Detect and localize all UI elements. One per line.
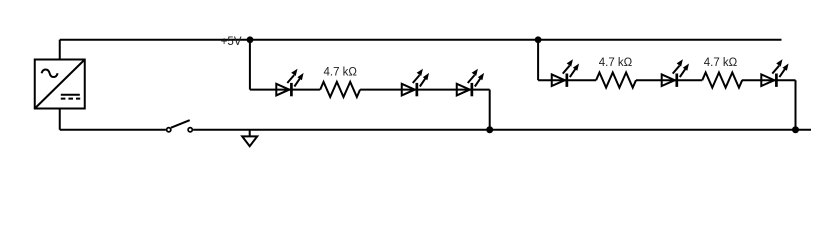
power supply U1 box [35,60,85,109]
node branch2 bottom junction dot [792,126,799,133]
wire branch2 segment a [538,79,596,81]
wire branch2 segment b [636,79,702,81]
wire PSU top pin [59,40,61,60]
wire PSU bottom pin [59,109,61,130]
wire bottom rail left [60,129,166,131]
resistor R1 [320,82,360,97]
power supply U1 AC sine [42,69,58,77]
wire branch2 down to bottom rail [795,80,797,130]
switch S1 left contact [167,128,171,132]
node +5V junction dot [247,36,254,43]
power supply U1 DC solid line [61,94,80,96]
ground stem [249,130,251,137]
LED D5 [662,59,689,87]
resistor R3 [702,73,742,88]
wire branch2 segment c [742,79,796,81]
LED D3 [457,69,484,97]
wire branch1 segment b [360,89,490,91]
node branch1 bottom junction dot [486,126,493,133]
node branch2 top junction dot [535,36,542,43]
wire branch1 down to bottom rail [489,90,491,130]
LED D6 [761,59,788,87]
switch S1 right contact [188,128,192,132]
wire branch2 drop [537,40,539,80]
svg-text:4.7 kΩ: 4.7 kΩ [323,66,357,78]
svg-text:+5V: +5V [221,36,242,48]
ground triangle [242,136,257,146]
svg-text:4.7 kΩ: 4.7 kΩ [599,57,633,69]
switch S1 lever [171,120,190,128]
LED D1 [276,69,303,97]
wire bottom rail right [193,129,811,131]
resistor R2 [596,73,636,88]
power supply U1 diagonal [35,60,85,109]
wire branch1 drop [249,40,251,90]
svg-text:4.7 kΩ: 4.7 kΩ [704,57,738,69]
LED D4 [552,59,579,87]
wire top rail [60,39,782,41]
power supply U1 DC dashed line [61,98,80,100]
wire branch1 segment a [250,89,320,91]
LED D2 [402,69,429,97]
